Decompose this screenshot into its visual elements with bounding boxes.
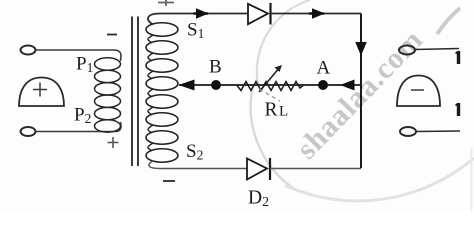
transformer core (two vertical lines) xyxy=(132,17,138,167)
plus below primary xyxy=(108,137,119,148)
wire secondary top to D1 xyxy=(148,14,248,25)
svg-text:S2: S2 xyxy=(186,141,203,163)
minus inside dome xyxy=(411,89,424,91)
minus below secondary xyxy=(163,180,175,182)
output terminal T4 (bottom-right) xyxy=(400,127,416,136)
down arrow on right wire xyxy=(356,43,366,55)
svg-text:D2: D2 xyxy=(248,188,269,211)
output dome (with minus) xyxy=(397,76,440,107)
right vertical wire xyxy=(360,14,362,169)
output terminal T3 (top-right) xyxy=(399,46,415,55)
svg-text:B: B xyxy=(209,57,222,78)
wire secondary bottom to D2 xyxy=(149,161,247,169)
wire D1 to corner xyxy=(271,13,362,15)
primary winding (6 loops) xyxy=(95,58,121,132)
minus above primary xyxy=(107,34,117,36)
plus inside source xyxy=(33,83,47,97)
center-tap arrow (points left into coil) xyxy=(179,80,195,91)
svg-text:S1: S1 xyxy=(187,20,204,42)
svg-text:A: A xyxy=(317,58,331,79)
watermark right edge line xyxy=(471,148,473,211)
current arrow near A (points left) xyxy=(340,80,355,91)
node A xyxy=(318,80,328,90)
resistor RL (zigzag) xyxy=(237,82,303,91)
svg-text:P1: P1 xyxy=(76,54,93,76)
ac source symbol (dome with plus) xyxy=(19,78,64,107)
watermark arc upper-left xyxy=(257,0,310,85)
plus at secondary top (partially cut) xyxy=(158,0,174,6)
wire T1 to primary top xyxy=(36,50,122,61)
input terminal T2 (bottom-left) xyxy=(21,127,36,136)
wire D2 to right corner xyxy=(270,168,361,170)
current arrow after D1 xyxy=(309,12,324,15)
secondary winding (8 loops) xyxy=(146,23,178,163)
center tap wire (middle) xyxy=(179,84,361,86)
dashed leader to RL label xyxy=(259,89,280,101)
node B xyxy=(211,80,221,90)
svg-text:RL: RL xyxy=(265,100,289,121)
rheostat arrow through resistor xyxy=(259,67,280,92)
diode D1 xyxy=(248,3,271,25)
watermark text shaalaa.com xyxy=(290,23,429,166)
wire from T3 xyxy=(415,49,459,50)
watermark arc bottom-right xyxy=(285,158,474,201)
secondary winding left connectors xyxy=(148,35,153,151)
tick mark 1 (bottom) xyxy=(456,103,459,116)
input terminal T1 (top-left) xyxy=(21,46,36,55)
tick mark 1 (top) xyxy=(456,51,459,64)
wire from T4 xyxy=(416,130,460,133)
watermark arc left-bottom xyxy=(251,85,295,190)
watermark logo swoosh xyxy=(437,8,460,34)
current arrow on top wire xyxy=(194,12,209,15)
wire T2 to primary bottom xyxy=(36,122,122,132)
diode D2 xyxy=(247,158,270,180)
svg-text:P2: P2 xyxy=(74,105,91,127)
